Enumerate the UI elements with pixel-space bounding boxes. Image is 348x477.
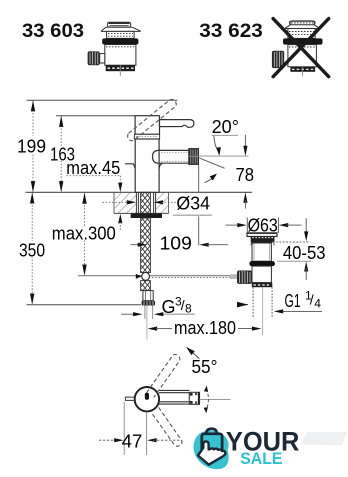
svg-text:4: 4: [314, 297, 321, 311]
svg-text:G1: G1: [285, 291, 301, 311]
svg-text:/: /: [310, 292, 314, 308]
svg-text:Ø34: Ø34: [176, 194, 210, 214]
svg-text:47: 47: [122, 432, 143, 452]
dim 40-53: [273, 218, 326, 280]
dim 350: [18, 192, 47, 304]
side nut: [88, 51, 100, 65]
reference line y=115.6 (163 top): [56, 115, 136, 117]
svg-text:max.45: max.45: [66, 158, 120, 178]
cartridge ring: [134, 134, 159, 139]
20 deg arc arrow: [205, 176, 216, 183]
rod clevis arrow: [136, 274, 142, 279]
lever (horizontal): [160, 120, 194, 128]
svg-text:max.180: max.180: [174, 318, 236, 338]
label G3/8: [121, 295, 195, 317]
dim max.180: [148, 318, 262, 338]
flexible hose: [144, 306, 146, 319]
shank through deck: [136, 192, 155, 213]
dim max.300: [50, 192, 117, 275]
thread band: [252, 283, 272, 288]
bottom thread band: [106, 65, 135, 71]
faucet body: [135, 139, 159, 192]
20 deg cone line: [199, 158, 224, 168]
lever raised (dashed): [128, 99, 177, 140]
centerline: [119, 65, 121, 76]
annotation 20 deg: [212, 117, 239, 156]
deck line: [26, 191, 253, 193]
G3/8 nut: [142, 301, 155, 306]
dim 163: [49, 116, 77, 193]
side rod nut: [237, 271, 252, 284]
body: [288, 45, 317, 67]
dim Ø34: [103, 194, 213, 216]
svg-text:20°: 20°: [212, 117, 239, 137]
lever/spout top view: [159, 390, 190, 404]
teal blob: [194, 430, 229, 469]
svg-text:40-53: 40-53: [283, 243, 326, 263]
ball joint: [142, 273, 150, 281]
deck cross-section hatch: [114, 193, 169, 214]
svg-text:55°: 55°: [192, 357, 218, 377]
swivel arc arrows: [206, 389, 208, 411]
svg-text:33 623: 33 623: [199, 20, 263, 42]
centerline: [302, 67, 304, 76]
top view body circle: [135, 387, 159, 411]
lower body: [252, 266, 271, 283]
spout tip tab (left): [125, 397, 135, 400]
dim 109: [131, 164, 229, 253]
leader to tailpipe at supply level: [238, 304, 248, 306]
svg-text:199: 199: [17, 136, 46, 156]
svg-text:SALE: SALE: [240, 449, 282, 468]
shopping bag handle: [206, 429, 216, 435]
threaded shank below deck: [141, 218, 151, 273]
lever pin: [145, 393, 149, 400]
dim Ø63: [226, 216, 302, 236]
bottom thread band: [290, 67, 315, 72]
tailpipe: [252, 287, 254, 318]
dim 78: [236, 135, 255, 209]
flange disc: [247, 233, 277, 236]
pop-up waste assembly (main view): [230, 233, 277, 335]
aerator (top view): [189, 392, 199, 404]
faint watermark right of YOUR: [301, 432, 347, 446]
cross X over drain icon 2: [273, 19, 329, 77]
annotation 55 deg: [186, 347, 217, 377]
dim 47: [99, 402, 181, 456]
shopping bag: [202, 434, 222, 453]
svg-text:33 603: 33 603: [22, 20, 84, 42]
spout: [153, 150, 189, 168]
shank segment below ball: [141, 281, 151, 291]
centerline right: [200, 399, 231, 401]
aerator: [189, 149, 199, 165]
knurled neck: [107, 31, 135, 38]
knurled neck: [288, 29, 315, 39]
brim: [101, 27, 140, 31]
label G1 1/4: [274, 289, 322, 314]
dim 199: [16, 100, 47, 192]
faucet head: [135, 116, 159, 135]
drain icon 1 (33 603 pop-up waste): [88, 22, 141, 76]
side nut: [272, 51, 284, 68]
svg-text:8: 8: [185, 301, 192, 315]
pop-up rod: [78, 275, 237, 277]
hand cursor: [198, 441, 226, 464]
small hook to body: [125, 164, 135, 169]
rod stub: [230, 274, 237, 279]
label max.45 with leader: [66, 158, 135, 231]
aerator centerline ref for 78: [199, 155, 249, 157]
o-ring band: [249, 261, 275, 266]
brim: [286, 25, 319, 29]
bottom supply line (350 bottom): [27, 304, 142, 306]
svg-text:78: 78: [236, 165, 255, 185]
svg-text:max.300: max.300: [52, 224, 116, 244]
shank lower connector: [143, 291, 153, 301]
black o-ring flange: [102, 38, 138, 44]
black o-ring flange: [283, 38, 323, 44]
upper body: [252, 243, 271, 261]
reference line y=100 (199 top): [27, 99, 178, 101]
dashed lever down 55deg: [151, 407, 182, 446]
knurled band: [251, 237, 275, 243]
svg-text:350: 350: [19, 240, 45, 260]
dashed lever up 55deg: [147, 354, 180, 397]
cap: [290, 21, 315, 25]
body: [105, 45, 136, 66]
svg-text:109: 109: [160, 233, 192, 253]
mounting washer and nut: [131, 213, 162, 218]
drain icon 2 (33 623, without waste): [272, 21, 323, 76]
cap: [107, 22, 130, 27]
